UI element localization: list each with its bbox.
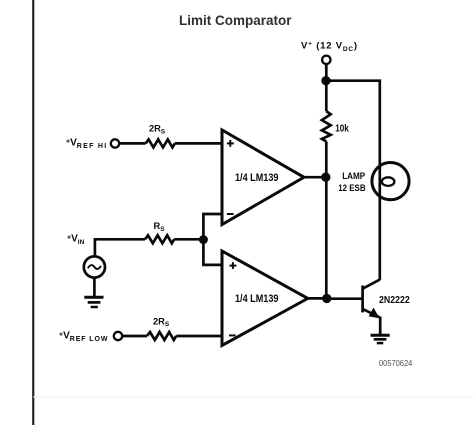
ground (VIN source) — [84, 297, 103, 307]
lamp 12 ESB — [338, 163, 409, 200]
terminal +VREF LOW — [59, 331, 122, 343]
wire 2RS to op-amp U2 - input — [176, 335, 222, 338]
resistor 2RS (upper) — [146, 124, 175, 148]
svg-text:10k: 10k — [335, 123, 349, 134]
svg-text:12 ESB: 12 ESB — [338, 183, 366, 193]
junction node B (outputs to base) — [322, 294, 331, 303]
wire op-amp U1 output to node A — [304, 176, 326, 179]
junction comparator output node A — [321, 173, 330, 182]
terminal V+ (12 VDC) — [301, 41, 358, 64]
op-amp U1 1/4 LM139 — [222, 130, 304, 225]
source VIN AC generator — [84, 256, 105, 277]
resistor 2RS (lower) — [147, 316, 176, 340]
wire 10k to output node — [325, 142, 328, 178]
wire VIN source to ground — [93, 278, 96, 296]
svg-text:Limit Comparator: Limit Comparator — [179, 13, 292, 28]
ground (emitter) — [371, 335, 390, 343]
wire op-amp U1 - input to VIN node — [203, 214, 222, 240]
wire emitter to ground — [379, 317, 382, 335]
wire output bus between comparator outputs — [325, 177, 328, 298]
junction VIN node — [199, 235, 208, 244]
transistor Q1 2N2222 — [363, 280, 410, 319]
junction supply node — [321, 76, 330, 85]
wire supply node to lamp branch (top rail and right drop) — [326, 81, 380, 280]
wire VIN node to op-amp U2 + input — [203, 240, 222, 265]
wire node B to transistor base — [326, 297, 362, 300]
resistor 10k — [322, 111, 349, 141]
wire RS to VIN node — [174, 238, 203, 241]
resistor RS — [145, 221, 174, 243]
svg-text:LAMP: LAMP — [342, 171, 365, 181]
wire V+ terminal to supply node — [325, 64, 328, 81]
op-amp U2 1/4 LM139 — [222, 251, 308, 346]
wire op-amp U2 output to node B — [308, 297, 327, 300]
page left border — [32, 0, 34, 425]
svg-text:00570624: 00570624 — [379, 359, 413, 368]
wire VREF LOW terminal to 2RS — [122, 335, 147, 338]
wire supply node down to 10k resistor — [325, 81, 328, 112]
wire 2RS to op-amp U1 + input — [175, 142, 222, 145]
svg-text:1/4 LM139: 1/4 LM139 — [235, 172, 279, 184]
terminal +VREF HI — [66, 138, 119, 150]
wire VIN source to RS — [95, 239, 145, 256]
svg-text:1/4 LM139: 1/4 LM139 — [235, 293, 279, 305]
wire VREF HI terminal to 2RS — [119, 142, 145, 145]
svg-text:2N2222: 2N2222 — [379, 295, 410, 306]
